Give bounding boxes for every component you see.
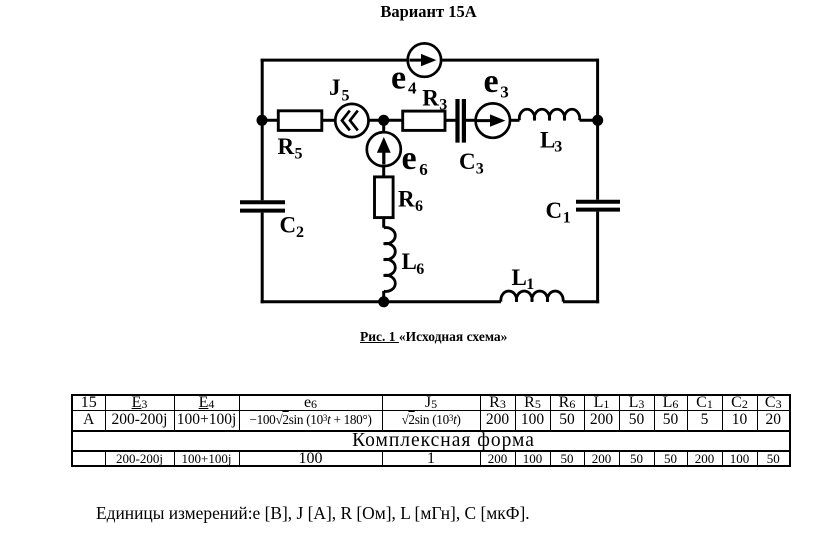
svg-text:2: 2 [296, 224, 304, 241]
wire middle rail segment 6 [510, 119, 520, 122]
resistor R5 [278, 111, 322, 131]
node middle junction [378, 115, 389, 126]
svg-text:3: 3 [476, 161, 484, 178]
capacitor C2 [240, 202, 285, 210]
svg-text:L: L [512, 265, 527, 290]
wire left rail upper [261, 59, 264, 201]
svg-text:e: e [391, 60, 406, 97]
units note [96, 503, 530, 524]
svg-text:R: R [398, 186, 415, 211]
source e3 [476, 103, 510, 137]
svg-text:e: e [402, 140, 417, 177]
wire middle rail segment 5 [466, 119, 476, 122]
wire bottom rail left [261, 300, 501, 303]
svg-text:R: R [278, 134, 295, 159]
inductor L6 [384, 228, 396, 292]
svg-text:4: 4 [408, 79, 417, 98]
svg-text:L: L [540, 127, 555, 152]
svg-text:e: e [484, 63, 499, 100]
wire left rail lower [261, 213, 264, 304]
svg-text:C: C [459, 149, 476, 174]
svg-text:C: C [546, 198, 563, 223]
node bottom junction [378, 296, 389, 307]
node right junction [592, 115, 603, 126]
svg-text:J: J [329, 75, 341, 100]
svg-text:3: 3 [554, 138, 562, 155]
wire middle branch: junction to e6 [382, 120, 385, 132]
svg-text:R: R [422, 85, 439, 110]
wire right rail lower [596, 212, 599, 304]
wire right rail upper [596, 59, 599, 200]
wire middle rail segment 2 [322, 119, 336, 122]
wire top rail [261, 59, 599, 62]
svg-text:1: 1 [526, 276, 534, 293]
source J5 [335, 104, 368, 137]
resistor R3 [403, 111, 445, 130]
svg-text:C: C [280, 213, 297, 238]
source e4 [408, 43, 441, 76]
svg-text:5: 5 [295, 146, 303, 163]
svg-text:1: 1 [563, 210, 571, 227]
svg-text:L: L [402, 249, 417, 274]
data table [71, 394, 791, 467]
svg-text:6: 6 [415, 198, 423, 215]
inductor L1 [501, 291, 563, 302]
wire L6 to bottom junction [382, 291, 385, 303]
svg-text:6: 6 [419, 160, 428, 179]
svg-text:3: 3 [439, 96, 447, 113]
resistor R6 [375, 177, 394, 218]
source e6 [367, 132, 401, 166]
node left junction [257, 115, 268, 126]
wire middle rail segment 1 [262, 119, 278, 122]
svg-text:3: 3 [500, 82, 509, 101]
wire middle rail segment 7 [580, 119, 599, 122]
title [0, 2, 817, 22]
svg-text:6: 6 [416, 261, 424, 278]
wire middle rail segment 3 [368, 119, 402, 122]
capacitor C3 [458, 99, 464, 143]
capacitor C1 [576, 202, 620, 210]
wire bottom rail right [563, 300, 599, 303]
caption [360, 329, 507, 345]
wire middle rail segment 4 [445, 119, 456, 122]
wire e6 to R6 [382, 166, 385, 176]
wire R6 to L6 [382, 218, 385, 228]
svg-text:5: 5 [342, 88, 350, 105]
inductor L3 [519, 109, 579, 120]
